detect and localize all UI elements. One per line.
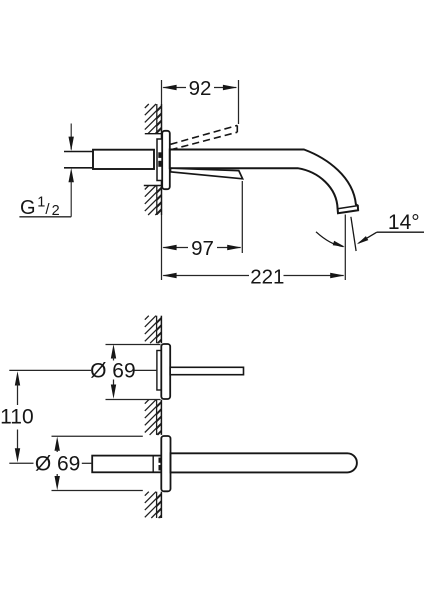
dimension 221 extension line [161, 253, 163, 280]
spout tube (bottom view) [171, 453, 357, 472]
handle dia 69 arrows [111, 344, 116, 358]
dimension 92 arrows [162, 85, 176, 90]
svg-text:110: 110 [0, 406, 33, 429]
water stream angle line [351, 217, 356, 251]
wall face line (bottom view) [160, 316, 162, 344]
svg-text:92: 92 [189, 77, 212, 100]
spout dia 69 extension lines [52, 435, 143, 437]
angle leader with arrow [359, 232, 377, 243]
spout axis extension [9, 462, 33, 464]
angle arc [316, 232, 344, 247]
dimension 110 line [15, 371, 20, 385]
angle leader underline [377, 231, 424, 233]
in-wall valve body [157, 139, 162, 181]
spout supply body [92, 456, 161, 473]
wall hatch upper band (side view) [145, 104, 149, 108]
handle dia 69 extension lines [106, 344, 161, 346]
aerator band line [338, 206, 358, 209]
wall inner line (side view) [156, 104, 158, 134]
wall face line (side view) [161, 104, 163, 215]
handle lever bar [170, 367, 243, 374]
svg-text:Ø 69: Ø 69 [90, 360, 136, 383]
dimension 92 extension lines [161, 80, 163, 104]
wall hatch (bottom view) [145, 316, 149, 320]
handle escutcheon (bottom view) [161, 344, 170, 399]
svg-text:97: 97 [191, 237, 214, 260]
svg-text:14°: 14° [388, 211, 420, 234]
pipe OD dimension lower arrow [69, 168, 74, 182]
lever in rest position [171, 168, 243, 179]
wall inner line (bottom view) [156, 316, 158, 344]
dimension 221 line [163, 275, 249, 277]
dimension 221 arrows [162, 273, 176, 278]
dimension 97 line [163, 247, 188, 249]
handle in-wall housing [157, 351, 162, 391]
spout body wall line [152, 456, 154, 473]
svg-text:1: 1 [37, 195, 45, 211]
svg-text:2: 2 [52, 203, 60, 219]
supply pipe (G 1/2 inlet) [64, 151, 94, 153]
spout thread marks [159, 458, 162, 463]
spout dia 69 arrows [55, 437, 60, 451]
handle axis extension [9, 369, 91, 371]
dimension 97 arrows [162, 245, 176, 250]
spout (side view) [170, 150, 358, 214]
label G 1/2 leader [19, 216, 71, 218]
dimension 92 line [163, 87, 186, 89]
escutcheon (side view) [162, 131, 170, 189]
svg-text:221: 221 [250, 265, 284, 288]
svg-text:G: G [20, 197, 36, 219]
thread detail marks [158, 152, 161, 158]
threaded nipple [93, 150, 154, 169]
spout escutcheon (bottom view) [161, 436, 170, 491]
wall hatch lower band (side view) [145, 186, 149, 190]
wall opening top edge [145, 133, 162, 135]
wall opening bottom edge [144, 185, 162, 187]
svg-text:Ø 69: Ø 69 [35, 453, 81, 476]
dimension 97 extension lines [161, 215, 163, 253]
pipe OD dimension upper arrow [70, 124, 72, 150]
lever raised position (dashed) [171, 125, 238, 144]
